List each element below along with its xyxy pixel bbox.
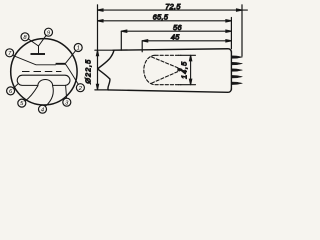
svg-text:Ø22,5: Ø22,5	[84, 59, 93, 85]
control grid (dashed)	[22, 71, 61, 73]
pin 9	[45, 28, 53, 36]
svg-text:14,5: 14,5	[180, 61, 189, 79]
extension line for 56	[120, 31, 122, 50]
wire anode to pin 2	[66, 64, 79, 84]
tube top edge	[113, 49, 231, 52]
extension line for 45	[141, 41, 143, 52]
tube right edge extension	[230, 18, 232, 49]
svg-text:1: 1	[77, 46, 80, 52]
heater leg to pin 5	[25, 86, 38, 101]
tube dome and exhaust tip	[98, 50, 114, 90]
tube bottom edge	[108, 89, 231, 92]
tube pin 4 (side view)	[232, 75, 243, 78]
wire cathode to pin 6	[13, 84, 17, 88]
top extension tick at bulb	[95, 49, 113, 51]
wire pin 8 to grid cap	[28, 39, 38, 46]
dashed cone lower line	[152, 70, 182, 83]
pin 7	[6, 49, 14, 57]
svg-text:56: 56	[173, 23, 182, 32]
dimension 14,5 line	[189, 55, 191, 84]
pin 5	[18, 99, 26, 107]
heater arch	[38, 80, 53, 86]
bottom extension tick at bulb	[95, 89, 108, 91]
14,5 top extension tick	[179, 54, 196, 56]
dimension 65,5	[98, 20, 232, 22]
dimension 72,5	[98, 9, 248, 11]
wire cathode to pin 3	[66, 86, 67, 99]
svg-text:45: 45	[171, 33, 180, 42]
left extension line at bulb tip	[97, 5, 99, 90]
cone apex arrowhead	[178, 68, 183, 71]
pin 2	[76, 84, 84, 92]
cathode loop	[17, 75, 70, 85]
internal electrode dashed bottom line	[155, 84, 181, 86]
pin 6	[7, 87, 15, 95]
tube pin 3 (side view)	[232, 69, 243, 72]
pin 4	[39, 105, 47, 113]
internal electrode dashed top line	[155, 54, 181, 56]
svg-text:65,5: 65,5	[153, 13, 169, 22]
svg-text:72,5: 72,5	[165, 2, 181, 11]
extension line at pin tips	[241, 5, 243, 56]
tube pin 2 (side view)	[232, 62, 243, 65]
diameter dimension arrows	[96, 50, 98, 90]
dimension 56	[121, 30, 231, 32]
pin 3	[63, 98, 71, 106]
tube right edge	[230, 52, 232, 90]
svg-text:4: 4	[41, 107, 44, 113]
internal electrode dashed dome	[144, 55, 155, 84]
anode bar	[56, 63, 66, 65]
grid-cap stem	[38, 46, 40, 53]
dashed cone upper line	[152, 57, 182, 69]
heater leg to pin 4	[46, 86, 54, 106]
pin 1	[74, 44, 82, 52]
grid-cap bar	[31, 53, 46, 55]
wire pin 9 to grid cap	[39, 35, 47, 46]
dimension 45	[142, 40, 231, 42]
tube pin 1 (side view)	[232, 56, 243, 59]
14,5 bottom extension tick	[179, 84, 196, 86]
wire anode to pin 1	[66, 51, 76, 64]
pin 8	[21, 33, 29, 41]
wire pin 7 to anode	[13, 55, 56, 64]
tube pin 5 (side view)	[232, 82, 243, 85]
tube base circle (bottom view)	[11, 39, 77, 105]
